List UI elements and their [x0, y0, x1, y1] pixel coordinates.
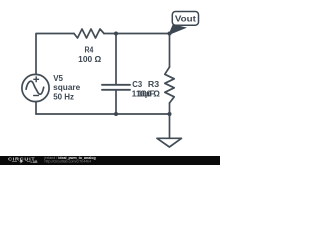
node junction dot top-right corner — [168, 32, 172, 36]
svg-text:100 Ω: 100 Ω — [78, 55, 102, 64]
svg-text:R3: R3 — [148, 80, 160, 89]
capacitor C3 top lead wire — [115, 34, 117, 85]
svg-text:Vout: Vout — [175, 15, 196, 24]
voltage source minus sign — [33, 95, 39, 97]
svg-text:C3: C3 — [132, 80, 142, 89]
svg-text:100 Ω: 100 Ω — [138, 90, 161, 99]
svg-text:50 Hz: 50 Hz — [53, 92, 74, 101]
ground symbol — [157, 114, 182, 147]
resistor R4 — [74, 29, 104, 38]
svg-text:LAB: LAB — [31, 160, 39, 164]
svg-text:V5: V5 — [53, 74, 63, 83]
watermark bar — [0, 156, 220, 165]
voltage source V5 circle — [22, 74, 49, 101]
svg-text:square: square — [53, 83, 81, 92]
watermark logo LAB — [12, 161, 30, 163]
svg-text:http://circuitlab.com/c/7b44b4: http://circuitlab.com/c/7b44b4 — [45, 160, 92, 164]
wire source-bottom segment — [35, 102, 37, 114]
wire top-left segment — [36, 34, 74, 75]
voltage source V5 sine wave — [26, 81, 44, 94]
Vout flag pointer — [168, 24, 187, 35]
capacitor C3 plates — [102, 85, 130, 90]
wire top-right segment — [104, 34, 170, 68]
node junction dot bottom-right (ground) — [168, 112, 172, 116]
wire right-bottom segment — [169, 103, 171, 114]
resistor R3 — [165, 67, 174, 103]
svg-text:R4: R4 — [84, 45, 93, 54]
node junction dot top (C3/top wire) — [114, 32, 118, 36]
voltage source plus sign — [33, 76, 39, 82]
Vout flag box — [172, 12, 198, 26]
wire bottom segment — [36, 113, 170, 115]
capacitor C3 bottom lead wire — [115, 90, 117, 114]
node junction dot bottom (C3/bottom wire) — [114, 112, 118, 116]
